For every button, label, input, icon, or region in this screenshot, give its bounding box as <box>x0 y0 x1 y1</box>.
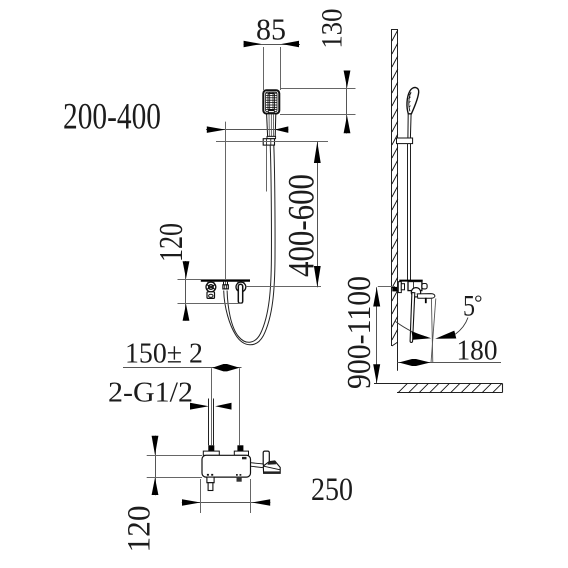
left inlet nut <box>208 445 214 451</box>
dim 250 right arrow <box>252 499 270 506</box>
hand shower side: head <box>407 88 419 114</box>
hose connector inner lines <box>265 139 267 145</box>
hose stub line <box>266 146 268 192</box>
dim 150+-2 double arrow <box>212 364 239 371</box>
dim 400-600 line <box>317 142 319 288</box>
svg-text:130: 130 <box>316 9 349 49</box>
dim 900-1100 top tick <box>378 286 395 288</box>
dim 130 top arrow <box>344 71 351 88</box>
handle stem lines <box>251 463 264 464</box>
dim 2-G1/2 right arrow <box>215 403 231 410</box>
hose front view (outer edge) <box>227 145 271 342</box>
floor top line <box>374 383 503 385</box>
valve front: line to 400-600 ext <box>246 286 321 288</box>
dim 130 bottom arrow <box>344 116 351 134</box>
dim 900-1100 line <box>376 287 378 383</box>
dim 120 lower line <box>155 436 157 496</box>
dim 130 ext line top <box>280 88 356 90</box>
valve side: spout tick <box>425 298 427 303</box>
dim 85 ext line right <box>280 47 282 90</box>
left inlet centerline <box>211 368 213 445</box>
dim 250 ext line right <box>250 479 252 513</box>
svg-text:200-400: 200-400 <box>63 97 161 138</box>
valve side: right knob <box>422 284 427 289</box>
slide bar bracket <box>397 138 413 144</box>
valve side: wall anchor (black) <box>392 287 397 292</box>
valve side: top bar <box>399 280 422 282</box>
dim 130 ext line bottom <box>280 114 356 116</box>
floor hatch <box>398 383 502 393</box>
mixer body <box>202 455 251 477</box>
handle paddle <box>263 451 269 466</box>
dim 400-600 top arrow <box>314 142 321 163</box>
svg-text:180: 180 <box>457 335 498 367</box>
svg-text:120: 120 <box>153 223 190 262</box>
dim 120 upper ext line top <box>178 279 251 281</box>
svg-text:400-600: 400-600 <box>282 174 323 277</box>
handle knob cap <box>267 461 276 465</box>
floor slab bottom line <box>397 392 503 394</box>
dim 150+-2 line <box>123 367 242 369</box>
svg-text:5: 5 <box>463 290 475 323</box>
svg-text:120: 120 <box>122 506 158 553</box>
valve front: left knob <box>206 282 216 292</box>
dim 900-1100 bottom arrow <box>373 364 380 383</box>
dim 85 right arrow <box>281 41 299 48</box>
dim 200-400 ext line <box>225 122 227 146</box>
dim 120 lower ext line bottom <box>147 477 202 479</box>
svg-text:250: 250 <box>311 472 353 508</box>
valve front: right knob <box>236 282 246 292</box>
valve front: lever <box>238 284 242 303</box>
hand shower side: face line <box>409 92 411 111</box>
valve front: left knob ticks <box>207 282 209 285</box>
dim 120 upper line <box>185 261 187 321</box>
valve side: pivot ball <box>411 288 420 297</box>
right inlet nut <box>237 445 243 451</box>
dim 200-400 left arrow <box>207 126 226 132</box>
shower head front: spray column <box>268 94 275 110</box>
dim 120 lower ext line top <box>147 455 202 457</box>
valve side: main body <box>408 282 422 291</box>
svg-text:2-G1/2: 2-G1/2 <box>108 377 193 409</box>
valve front: middle square <box>223 285 228 289</box>
wall section left line <box>391 29 393 346</box>
svg-text:150± 2: 150± 2 <box>125 339 203 370</box>
dim 400-600 bottom arrow <box>314 266 321 287</box>
svg-text:85: 85 <box>256 12 286 47</box>
dim 200-400 right arrow <box>275 126 289 132</box>
dim 120 upper ext line bottom <box>178 303 243 305</box>
shower handle front <box>267 114 276 136</box>
outlet under body <box>207 477 214 483</box>
dim 120 upper top arrow <box>183 261 190 278</box>
hose connector square <box>263 139 274 145</box>
horizontal line under connector <box>216 141 328 143</box>
dim 180 line <box>397 362 501 364</box>
wall section right line <box>397 29 399 346</box>
left pipe thread lines <box>208 399 210 446</box>
floor slab right cap <box>502 384 504 393</box>
right inlet centerline <box>239 368 241 445</box>
hose side view <box>407 144 409 280</box>
shower head front: bottom slot <box>268 111 274 113</box>
wall lower stub line <box>397 346 399 371</box>
5 degree arc left arrowhead <box>412 332 432 340</box>
mixer body dots <box>207 474 241 476</box>
dim 85 line <box>244 44 301 46</box>
dim 250 line <box>182 502 271 504</box>
right inlet base <box>234 451 248 455</box>
dim 200-400 line <box>206 129 288 131</box>
small part under body right <box>237 477 242 482</box>
mixer body logo mark <box>242 457 247 459</box>
valve front: left outlet cup <box>207 292 215 299</box>
dim 120 lower top arrow <box>152 436 159 455</box>
handle knob inner line <box>264 466 281 470</box>
handle knob base strip <box>264 471 281 473</box>
valve side: hanging lever <box>410 293 415 343</box>
hand shower side: handle <box>408 114 411 139</box>
dim 120 upper bottom arrow <box>183 304 190 321</box>
dim 2-G1/2 left arrow <box>190 403 209 410</box>
valve side: wall bracket <box>398 282 401 293</box>
valve side: body inner line <box>413 282 415 291</box>
dim 85 left arrow <box>244 41 262 48</box>
hose front view (inner edge) <box>224 145 275 345</box>
left inlet base <box>203 451 219 455</box>
wall hatch <box>392 30 398 346</box>
handle knob <box>263 461 280 473</box>
dim 85 ext line left <box>263 47 265 90</box>
dim 120 lower bottom arrow <box>152 478 159 495</box>
svg-text:900-1100: 900-1100 <box>341 276 378 389</box>
wall section top cap <box>391 29 398 31</box>
shower handle inner lines <box>269 114 274 136</box>
valve side: spout <box>417 294 435 299</box>
dim 250 ext line left <box>200 479 202 513</box>
dim 180 double arrow <box>399 359 431 366</box>
valve front: middle square ticks <box>223 282 225 285</box>
5 degree arc right <box>455 318 468 335</box>
shower head front: grid lines <box>266 93 277 111</box>
spout swing line vertical <box>431 299 432 364</box>
shower head front: inner frame <box>266 92 277 111</box>
centerline to valve <box>225 146 227 285</box>
valve front: mounting bar <box>201 280 250 282</box>
dim 250 left arrow <box>182 499 201 506</box>
5 degree arc right arrowhead <box>435 331 456 339</box>
shower handle end cap <box>267 136 276 138</box>
dim 130 line <box>346 71 348 134</box>
valve front: right knob ticks <box>237 282 239 284</box>
5 degree arc left <box>396 322 429 338</box>
shower head front: outer body <box>263 90 279 113</box>
spout swing line tilted <box>431 299 436 364</box>
hand shower side: face hatch ticks <box>409 93 412 107</box>
dim 900-1100 top arrow <box>373 287 380 306</box>
